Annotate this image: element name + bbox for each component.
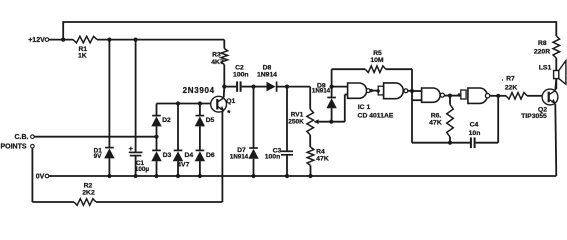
svg-text:4K7: 4K7 <box>211 59 224 66</box>
svg-text:LS1: LS1 <box>539 64 552 71</box>
svg-text:2N3904: 2N3904 <box>183 86 215 95</box>
svg-text:R7: R7 <box>506 75 515 82</box>
svg-text:CD 4011AE: CD 4011AE <box>358 113 394 120</box>
svg-text:0V: 0V <box>36 174 45 181</box>
svg-text:POINTS: POINTS <box>0 143 26 150</box>
svg-text:100n: 100n <box>265 154 281 161</box>
svg-text:R3: R3 <box>212 52 221 59</box>
svg-text:C.B.: C.B. <box>15 134 29 141</box>
svg-text:D4: D4 <box>184 152 193 159</box>
svg-text:47K: 47K <box>316 155 329 162</box>
svg-text:.: . <box>502 75 504 82</box>
svg-text:IC 1: IC 1 <box>358 104 371 111</box>
svg-text:22K: 22K <box>505 84 518 91</box>
svg-text:R2: R2 <box>84 183 93 190</box>
svg-text:Q1: Q1 <box>226 98 235 105</box>
svg-text:1N914: 1N914 <box>312 87 331 94</box>
svg-text:250K: 250K <box>288 118 304 125</box>
svg-text:10n: 10n <box>469 130 481 137</box>
svg-text:R4: R4 <box>316 148 325 155</box>
svg-text:D2: D2 <box>162 117 171 124</box>
svg-text:D5: D5 <box>206 117 215 124</box>
svg-text:10M: 10M <box>370 57 384 64</box>
svg-text:+: + <box>129 144 134 153</box>
svg-text:1N914: 1N914 <box>257 72 277 79</box>
svg-text:220R: 220R <box>534 49 550 56</box>
svg-text:47K: 47K <box>429 119 442 126</box>
svg-text:4V7: 4V7 <box>177 162 189 169</box>
svg-text:R6.: R6. <box>431 112 442 119</box>
svg-text:D3: D3 <box>163 152 172 159</box>
svg-text:R5: R5 <box>373 50 382 57</box>
svg-text:100n: 100n <box>233 72 249 79</box>
svg-text:2K2: 2K2 <box>82 190 95 197</box>
svg-text:1K: 1K <box>78 52 87 59</box>
svg-text:R8: R8 <box>538 40 547 47</box>
svg-text:C4: C4 <box>470 121 479 128</box>
svg-text:1N914: 1N914 <box>230 153 249 160</box>
svg-text:9V: 9V <box>94 153 103 160</box>
svg-text:100µ: 100µ <box>135 166 150 173</box>
svg-text:D6: D6 <box>206 152 215 159</box>
svg-text:TIP3055: TIP3055 <box>521 113 547 120</box>
svg-text:+12V: +12V <box>28 37 45 44</box>
